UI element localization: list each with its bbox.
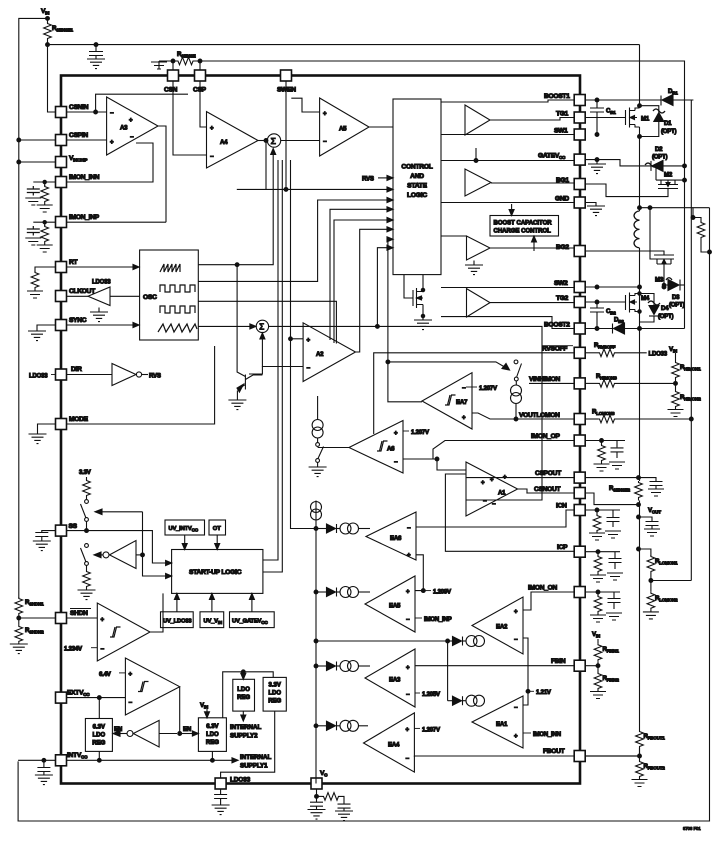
wire arrow into charge control top xyxy=(509,204,514,216)
svg-text:CSNIN: CSNIN xyxy=(69,104,89,111)
pin DIR xyxy=(56,366,83,380)
wire A4 output to summer xyxy=(258,140,268,142)
pin VINHIMON xyxy=(529,376,585,389)
capacitor CB1 xyxy=(590,98,616,136)
resistor RFBOUT1 xyxy=(636,730,666,748)
pin BG1 xyxy=(556,177,585,190)
block 6.3V LDO REG right xyxy=(198,718,226,752)
wire CSN pin up xyxy=(172,61,174,70)
pin ICP xyxy=(557,544,585,557)
svg-text:A1: A1 xyxy=(498,490,506,497)
buffer DIR to RVS xyxy=(67,364,161,386)
svg-text:EA2: EA2 xyxy=(496,624,508,631)
svg-text:M3: M3 xyxy=(655,277,664,284)
svg-text:BOOST1: BOOST1 xyxy=(544,93,570,100)
wire CSP pin down to A4 non-inverting xyxy=(200,81,207,128)
svg-text:LDO33: LDO33 xyxy=(649,351,668,358)
pin MODE xyxy=(56,416,89,430)
svg-text:D2: D2 xyxy=(655,146,663,153)
diode chain EA6 xyxy=(314,523,370,534)
current source I2 monitor xyxy=(511,385,522,419)
resistor RHIMON1 xyxy=(672,361,702,379)
svg-text:1.205V: 1.205V xyxy=(422,691,441,698)
wire RVSOFF row inside xyxy=(374,353,575,434)
mosfet M5 logic pulldown xyxy=(404,275,432,330)
svg-text:IMON_INP: IMON_INP xyxy=(69,214,100,221)
svg-text:(OPT): (OPT) xyxy=(661,128,677,135)
comparator EA6 xyxy=(366,512,416,560)
wire A5 output to control logic xyxy=(369,126,393,128)
svg-text:SUPPLY1: SUPPLY1 xyxy=(240,763,268,770)
pin VOUTLOMON xyxy=(519,412,585,425)
resistor SS pullup 3.3V xyxy=(79,469,92,499)
diode D4 (OPT) xyxy=(640,294,674,323)
resistor RLOMON3 xyxy=(585,409,693,423)
wire VIN down to CSNIN xyxy=(48,45,56,112)
svg-text:SS: SS xyxy=(69,523,78,530)
op-amp A3 xyxy=(107,97,158,155)
wire A2 non-inverting input xyxy=(291,338,304,340)
gate driver U3 BG1 xyxy=(441,148,574,203)
svg-text:SW2: SW2 xyxy=(554,280,568,287)
svg-text:M1: M1 xyxy=(641,116,650,123)
svg-text:CSPOUT: CSPOUT xyxy=(535,470,561,477)
node VIN himon divider xyxy=(669,346,678,361)
op-amp A2 xyxy=(303,323,355,382)
pin CSPIN xyxy=(56,132,89,146)
junction IMON_INP res xyxy=(43,221,46,224)
svg-text:OT: OT xyxy=(213,526,222,532)
junction RLOMON top xyxy=(637,547,641,551)
resistor IMON_INP filter xyxy=(37,222,53,252)
resistor IMON_INN filter xyxy=(37,182,53,212)
pin TG2 xyxy=(556,295,585,308)
current source I3 on VC rail xyxy=(311,502,322,521)
wire EXTVCC down to ldo xyxy=(98,698,100,719)
svg-text:CHARGE CONTROL: CHARGE CONTROL xyxy=(494,229,552,235)
compensation network VC pin xyxy=(308,789,354,821)
transistor Q1 slope reset xyxy=(228,265,262,410)
wire logic input row7 from EA7 output xyxy=(386,237,422,402)
wire VINHIMON row inside xyxy=(529,382,574,384)
junction RLOMON mid xyxy=(649,579,653,583)
pin TG1 xyxy=(556,111,585,124)
svg-text:INTERNAL: INTERNAL xyxy=(230,724,261,731)
wire GATEVCC row xyxy=(585,160,651,166)
svg-text:CSPIN: CSPIN xyxy=(69,132,88,139)
gate driver U5 TG2 xyxy=(441,288,574,329)
svg-text:IMON_INP: IMON_INP xyxy=(424,616,452,623)
pin CLKOUT xyxy=(56,288,96,302)
svg-text:FBIN: FBIN xyxy=(551,658,566,665)
svg-text:ICN: ICN xyxy=(556,503,567,510)
wire logic input row6 from A2 output xyxy=(356,227,394,352)
svg-text:SYNC: SYNC xyxy=(69,317,87,324)
svg-text:IMON_OP: IMON_OP xyxy=(531,433,561,440)
svg-text:VOUTLOMON: VOUTLOMON xyxy=(519,412,560,419)
pin GATEVCC xyxy=(538,153,585,166)
inductor L1 xyxy=(634,211,640,248)
svg-text:CSNOUT: CSNOUT xyxy=(534,486,561,493)
wire A4 output down to logic bus xyxy=(265,141,267,190)
wire sigma1 to A5 inverting xyxy=(281,140,320,142)
junction M1 drain xyxy=(638,104,642,108)
junction SHDN divider xyxy=(17,616,21,620)
summer sigma2 xyxy=(256,320,268,332)
wire VIN sense line across top to power rail xyxy=(48,44,640,46)
ground CSN sense line stub xyxy=(151,61,167,69)
wire A1 minus input from sigma2 line xyxy=(466,499,490,501)
summer sigma1 xyxy=(267,134,280,147)
svg-text:1.207V: 1.207V xyxy=(422,726,441,733)
svg-text:LDO33: LDO33 xyxy=(29,373,48,380)
junction CSP node xyxy=(198,59,202,63)
wire SYNC to OSC with arrow xyxy=(67,323,140,328)
capacitor IMON_INP filter xyxy=(25,226,41,245)
block UV_LDO33 xyxy=(161,612,194,628)
diode chain EA4 xyxy=(314,720,368,731)
ground GATEVCC xyxy=(588,160,606,174)
svg-text:A2: A2 xyxy=(316,351,324,358)
wire A6 inverting row xyxy=(403,458,437,460)
filter RC IMON_OP xyxy=(585,439,625,471)
wire GATEVCC sense rail right xyxy=(684,62,686,329)
svg-text:1.21V: 1.21V xyxy=(536,689,552,696)
svg-text:EA7: EA7 xyxy=(456,399,468,406)
junction 1.21V ref xyxy=(526,689,552,696)
diode chain EA3 xyxy=(314,661,370,672)
svg-text:A5: A5 xyxy=(339,126,347,133)
node VIN into ldo xyxy=(200,702,210,718)
arrow into LDO REG xyxy=(241,672,246,680)
wire logic input row8 from switch line xyxy=(376,245,394,328)
svg-text:EA5: EA5 xyxy=(389,603,401,610)
wire SW2 row xyxy=(585,286,639,288)
switch S3 soft-start upper xyxy=(81,500,89,531)
svg-text:SUPPLY2: SUPPLY2 xyxy=(230,733,258,740)
svg-text:RVS: RVS xyxy=(362,176,374,183)
comparator EA1 xyxy=(472,696,523,748)
wire EXTVCC comparator output to EN xyxy=(179,687,181,734)
svg-text:LDO: LDO xyxy=(92,733,105,739)
wire INTVCC row internal supply1 xyxy=(67,751,272,769)
wire EA3 plus to FBIN row xyxy=(415,665,574,667)
diode D2 (OPT) xyxy=(645,146,685,171)
inverter U9 EN xyxy=(113,720,177,747)
label RVS input arrow xyxy=(362,175,393,182)
wire CSPOUT row to RSENSE2 xyxy=(585,478,656,481)
gate driver U4 BG2 xyxy=(441,236,574,275)
svg-text:3.3V: 3.3V xyxy=(269,683,281,689)
svg-text:INTERNAL: INTERNAL xyxy=(240,754,271,761)
node VIN fbin divider xyxy=(592,631,601,643)
junction CSN node xyxy=(171,59,175,63)
resistor RSENSE1 xyxy=(44,18,74,40)
wire OSC square2 down to A2 xyxy=(198,301,336,343)
resistor RLOAD xyxy=(691,208,711,254)
arrow OT into startup xyxy=(215,535,220,550)
junction VOUTLOMON row xyxy=(514,417,518,421)
arrow LDO REG to supply2 xyxy=(230,711,261,739)
wire logic input row4 to A2 top xyxy=(330,207,393,340)
wire CSNOUT row xyxy=(585,493,638,505)
block BOOST CAPACITOR CHARGE CONTROL xyxy=(490,216,559,237)
resistor RT external xyxy=(27,267,56,298)
svg-text:Σ: Σ xyxy=(271,136,276,146)
svg-text:MODE: MODE xyxy=(69,416,89,423)
pin BG2 xyxy=(556,244,585,257)
ground CSPOUT cap xyxy=(648,482,664,497)
wire SHDN row xyxy=(19,617,98,619)
capacitor INTVCC external xyxy=(18,758,55,784)
wire VOUT top line xyxy=(640,207,710,209)
junction VINHIMON divider xyxy=(674,382,678,386)
svg-text:M4: M4 xyxy=(641,295,650,302)
pin LDO33 bottom xyxy=(215,777,250,790)
resistor RHIMON2 xyxy=(668,390,702,417)
svg-text:REG: REG xyxy=(92,741,105,747)
wire supply2 top feed xyxy=(223,672,274,718)
junction IMON_INN res xyxy=(43,180,46,183)
svg-text:VINHIMON: VINHIMON xyxy=(529,376,560,383)
junction VIN top xyxy=(46,17,50,21)
svg-text:A6: A6 xyxy=(387,446,395,453)
pin SW1 xyxy=(554,128,585,141)
wire MODE row into logic xyxy=(67,346,215,424)
pin VC bottom xyxy=(311,770,328,789)
arrow UV_VIN into startup xyxy=(209,593,214,611)
junction M1 source xyxy=(638,135,642,139)
svg-text:6.3V: 6.3V xyxy=(206,724,218,730)
resistor RSENSE xyxy=(177,51,196,65)
ground MODE external xyxy=(29,424,56,444)
junction SS node xyxy=(85,529,89,533)
svg-text:EA6: EA6 xyxy=(390,535,402,542)
wire 3.3V reg to LDO33 pin xyxy=(221,711,275,778)
svg-text:REG: REG xyxy=(206,740,219,746)
wire CSN-CSP sense line xyxy=(159,60,685,63)
mosfet M1 xyxy=(585,108,650,128)
buffer CLKOUT xyxy=(67,279,140,322)
pin SWEN xyxy=(277,70,296,94)
comparator EA2 xyxy=(472,597,523,654)
wire RSENSE1 bottom junction xyxy=(47,40,49,45)
block UV_VIN xyxy=(200,612,224,628)
svg-text:FBOUT: FBOUT xyxy=(543,748,565,755)
op-amp A4 xyxy=(207,112,259,168)
pin IMON_OP xyxy=(531,433,585,446)
wire logic input bus row2 xyxy=(237,187,393,192)
diode chain EA2 xyxy=(446,636,485,647)
pin CSN xyxy=(164,70,179,94)
capacitor IMON_INN filter xyxy=(25,186,41,205)
svg-text:CLKOUT: CLKOUT xyxy=(69,288,95,295)
resistor RLOMON1 xyxy=(639,549,679,573)
wire IMON_OP row inside with jog xyxy=(433,441,574,471)
diode DB1 xyxy=(661,88,693,106)
block CONTROL AND STATE LOGIC xyxy=(393,99,441,275)
svg-text:D4: D4 xyxy=(661,305,669,312)
wire A6 output to mirror chain xyxy=(318,447,349,449)
comparator U7 SHDN xyxy=(64,593,163,661)
svg-text:UV_LDO33: UV_LDO33 xyxy=(163,619,192,625)
wire A5 non-inverting input xyxy=(291,98,319,112)
arrow UV_INTVCC into startup xyxy=(182,535,187,550)
svg-text:1.207V: 1.207V xyxy=(479,385,498,392)
wire A2 inverting row xyxy=(249,367,303,375)
svg-text:IMON_ON: IMON_ON xyxy=(528,585,558,592)
svg-text:GND: GND xyxy=(555,196,569,203)
wire SS row to startup logic xyxy=(67,531,167,563)
wire CSPIN to A3 non-inverting input xyxy=(67,139,107,141)
pin CSP xyxy=(193,70,207,94)
svg-text:UV_INTVCC: UV_INTVCC xyxy=(169,526,199,532)
svg-text:6.4V: 6.4V xyxy=(99,671,112,678)
svg-text:LDO: LDO xyxy=(268,691,281,697)
resistor RFBIN1 xyxy=(594,643,619,665)
block LDO REG xyxy=(233,679,255,711)
wire power rail VIN-to-VOUT (right main rail) xyxy=(639,45,641,756)
svg-text:RVSOFF: RVSOFF xyxy=(542,346,567,353)
junction GATEVCC xyxy=(595,158,599,162)
svg-text:START-UP LOGIC: START-UP LOGIC xyxy=(189,569,242,576)
pin SYNC xyxy=(56,317,87,331)
svg-text:SWEN: SWEN xyxy=(277,87,296,94)
svg-text:SHDN: SHDN xyxy=(70,610,88,617)
svg-text:A3: A3 xyxy=(120,125,128,132)
pin SS xyxy=(56,523,78,536)
svg-text:OSC: OSC xyxy=(143,294,157,301)
wire EA5 plus 1.209V ref shared with EA6 xyxy=(415,555,452,596)
mosfet M3 xyxy=(585,206,674,289)
wire SWEN down to logic bus xyxy=(285,81,287,189)
divider RSHDN1 xyxy=(15,597,44,615)
wire switch line row xyxy=(388,362,506,368)
wire CSN pin down to A4 inverting xyxy=(173,81,207,156)
wire VIN top corner to outer left rail xyxy=(19,18,48,597)
pin IMON_INN xyxy=(56,174,100,188)
junction CSNIN branch xyxy=(94,110,98,114)
diode chain EA5 xyxy=(314,587,370,598)
wire logic input row3 from OSC square wave xyxy=(198,198,393,282)
wire CSNIN branch loop xyxy=(96,94,188,112)
svg-text:1.207V: 1.207V xyxy=(411,429,430,436)
pin SHDN xyxy=(56,609,92,624)
capacitor SS external xyxy=(33,531,56,551)
svg-text:SW1: SW1 xyxy=(554,128,568,135)
wire EA2 EA1 chain rail xyxy=(316,641,448,701)
resistor RRVSOFF xyxy=(585,342,668,358)
block UV_INTVCC xyxy=(165,520,205,535)
gate driver U2 TG1 xyxy=(441,100,574,135)
wire OSC triangle to sigma2 arrow xyxy=(198,324,256,329)
comparator EA5 xyxy=(365,576,415,632)
wire FBOUT row xyxy=(585,755,639,757)
resistor RSENSE2 xyxy=(609,481,642,501)
svg-text:Σ: Σ xyxy=(259,323,264,332)
pin ICN xyxy=(556,503,585,516)
svg-text:D1: D1 xyxy=(664,120,672,127)
junction CSNOUT node xyxy=(637,503,641,507)
pin BOOST2 xyxy=(544,322,585,335)
capacitor VIN bypass to ground xyxy=(87,45,105,69)
svg-text:LDO: LDO xyxy=(206,732,219,738)
label EA4 plus 1.207V xyxy=(414,726,441,733)
pin CSNOUT xyxy=(534,486,585,499)
resistor RFBIN2 xyxy=(590,666,619,699)
wire sigma2 bottom input from A2 inverting node xyxy=(260,333,265,367)
resistor RLOMON2 xyxy=(643,592,678,619)
filter RC ICN xyxy=(585,508,621,540)
filter RC ICP xyxy=(585,550,623,582)
resistor RHIMON3 xyxy=(585,373,675,387)
wire outer right rail xyxy=(18,208,709,821)
junction A4 output xyxy=(264,139,268,143)
switch S2 monitor xyxy=(514,360,521,385)
wire arrow up into charge control bottom xyxy=(532,236,537,251)
svg-text:6.3V: 6.3V xyxy=(93,725,105,731)
pin IMON_INP xyxy=(56,214,100,228)
pin FBOUT xyxy=(543,748,585,762)
op-amp A1 xyxy=(466,462,518,516)
svg-text:BOOST CAPACITOR: BOOST CAPACITOR xyxy=(494,221,553,227)
wire right monitor rail down from DB1 xyxy=(690,100,692,581)
pin CSNIN xyxy=(56,104,89,118)
junction D2 rail xyxy=(683,164,687,168)
svg-text:1.209V: 1.209V xyxy=(433,589,452,596)
svg-text:8708 F01: 8708 F01 xyxy=(683,826,701,831)
label LDO33 at DIR xyxy=(29,373,56,380)
diode chain EA1 xyxy=(448,695,485,706)
arrow UV_LDO33 into startup xyxy=(174,593,179,611)
svg-text:(OPT): (OPT) xyxy=(652,154,668,161)
wire IMON_INP row to pin xyxy=(67,221,167,223)
chip outline border xyxy=(61,76,580,784)
junction sawtooth to BJT base xyxy=(235,263,239,267)
pin BOOST1 xyxy=(544,93,585,106)
wire CSP pin up xyxy=(199,61,201,70)
svg-text:TG1: TG1 xyxy=(556,111,569,118)
ground SYNC external xyxy=(28,325,56,341)
wire IMON_INP external xyxy=(33,221,55,223)
diode D1 (OPT) xyxy=(640,106,677,137)
svg-text:(OPT): (OPT) xyxy=(658,313,674,320)
pin FBIN xyxy=(551,658,585,671)
current source I1 with switch to ground xyxy=(309,396,327,477)
comparator EA7 xyxy=(422,373,498,429)
comparator EA4 xyxy=(364,713,415,772)
svg-text:ICP: ICP xyxy=(557,544,568,551)
op-amp A5 xyxy=(320,98,369,156)
svg-text:EA3: EA3 xyxy=(389,677,401,684)
wire left rail to VINCHIP xyxy=(19,161,56,163)
ground LDO33 external cap xyxy=(212,789,230,815)
svg-text:CSN: CSN xyxy=(164,87,178,94)
wire sigma2 output to A1 region xyxy=(269,326,542,500)
svg-text:UV_VIN: UV_VIN xyxy=(204,619,223,625)
svg-text:M2: M2 xyxy=(664,172,673,179)
wire EXTVCC row xyxy=(67,697,126,699)
svg-text:BOOST2: BOOST2 xyxy=(544,322,570,329)
comparator A6 xyxy=(349,421,430,474)
pin VINCHIP xyxy=(56,155,88,168)
svg-text:D3: D3 xyxy=(672,294,680,301)
comparator EA3 xyxy=(365,649,415,707)
divider RSHDN2 xyxy=(10,625,44,654)
pin RT xyxy=(56,259,78,273)
wire ICN row to EA6 xyxy=(416,510,574,527)
mosfet M2 xyxy=(585,164,686,196)
